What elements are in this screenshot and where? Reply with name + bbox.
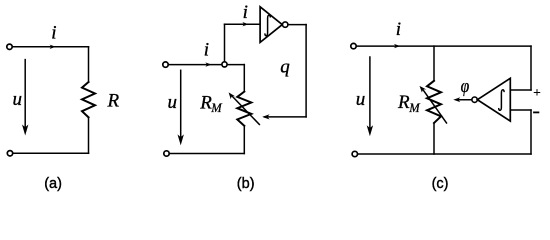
svg-text:R: R [107,91,120,112]
svg-text:φ: φ [461,76,470,97]
svg-text:(a): (a) [44,176,62,192]
integral sign U2 (c) [499,90,504,110]
wire bottom (a) [13,152,88,154]
wire from bubble (b) [288,24,306,26]
memristor bottom stub (b) [243,126,245,154]
svg-text:u: u [356,89,366,110]
svg-text:q: q [280,56,290,77]
svg-text:R: R [397,92,410,113]
current arrowhead i (b) [205,62,211,66]
memristor top stub (b) [243,65,245,92]
terminal top-left (a) [7,44,12,49]
svg-text:i: i [51,23,56,44]
memristor zigzag (c) [427,81,441,123]
voltage arrow u (c) [369,57,371,129]
svg-text:u: u [168,92,178,113]
stub minus (c) [510,109,531,111]
integral sign U1 (b) [265,15,270,35]
integrator triangle U2 (c) [477,78,510,121]
terminal bottom-left (b) [164,151,169,156]
wire to integrator (b) [225,23,261,25]
svg-text:M: M [408,101,420,115]
wire top (b) [169,64,245,66]
stub plus (c) [510,89,531,91]
memristor diagonal arrow (b) [232,96,260,125]
inversion bubble U1 (b) [283,22,288,27]
memristor zigzag (b) [237,92,251,126]
voltage arrow u (b) [180,70,182,137]
wire right lower (c) [530,110,532,154]
terminal top-left (b) [163,62,168,67]
svg-text:i: i [396,19,401,40]
current arrowhead i (a) [50,45,56,49]
wire right lower (a) [88,117,90,153]
wire feedback horizontal (b) [265,116,307,118]
terminal bottom-left (a) [7,151,12,156]
current arrowhead i2 (b) [242,22,248,26]
memristor top stub (c) [433,46,435,81]
wire right upper (a) [88,47,90,82]
wire top (c) [357,45,531,47]
wire top (a) [13,46,89,48]
current arrowhead i (c) [394,44,400,48]
wire node-up (b) [224,24,226,61]
resistor R (a) [82,82,95,117]
svg-text:+: + [533,86,541,101]
svg-text:(c): (c) [432,176,449,192]
node circle (b) [222,62,227,67]
svg-text:u: u [13,89,23,110]
phi arrow (c) [457,99,471,101]
terminal top-left (c) [351,43,356,48]
wire bottom (b) [170,153,245,155]
memristor diagonal arrow (c) [423,89,447,123]
voltage arrow u (a) [24,60,26,128]
wire right upper (c) [530,46,532,90]
svg-text:(b): (b) [237,176,255,192]
feedback arrowhead (b) [262,114,269,119]
memristor bottom stub (c) [433,123,435,154]
svg-text:M: M [210,101,222,115]
integrator bubble U2 (c) [472,97,477,102]
svg-text:i: i [204,40,209,61]
integrator triangle U1 (b) [260,7,282,43]
wire bottom (c) [358,153,531,155]
terminal bottom-left (c) [352,151,357,156]
wire right vertical (b) [305,25,307,117]
svg-text:i: i [243,2,248,23]
label minus (c) [534,111,538,113]
